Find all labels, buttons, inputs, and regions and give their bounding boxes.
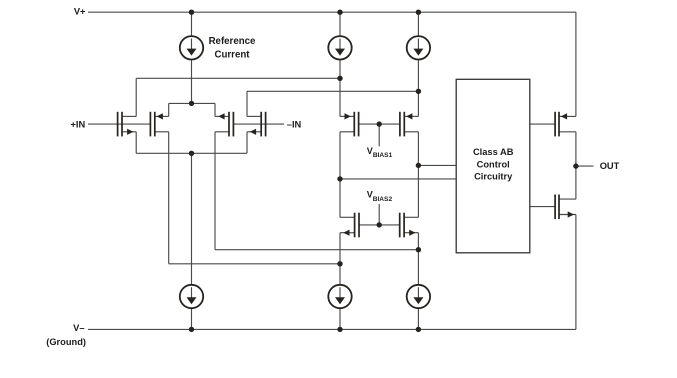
svg-text:Class AB: Class AB [473, 147, 514, 157]
svg-text:Circuitry: Circuitry [474, 172, 513, 182]
svg-text:OUT: OUT [600, 161, 620, 171]
svg-text:Reference: Reference [209, 36, 256, 47]
svg-text:VBIAS2: VBIAS2 [367, 190, 393, 203]
svg-text:VBIAS1: VBIAS1 [367, 146, 393, 159]
svg-text:Current: Current [215, 49, 251, 60]
svg-text:–IN: –IN [287, 119, 302, 129]
svg-text:Control: Control [477, 159, 510, 169]
svg-text:V+: V+ [74, 6, 86, 16]
svg-text:+IN: +IN [70, 119, 85, 129]
svg-text:(Ground): (Ground) [46, 337, 86, 347]
svg-text:V–: V– [73, 323, 84, 333]
